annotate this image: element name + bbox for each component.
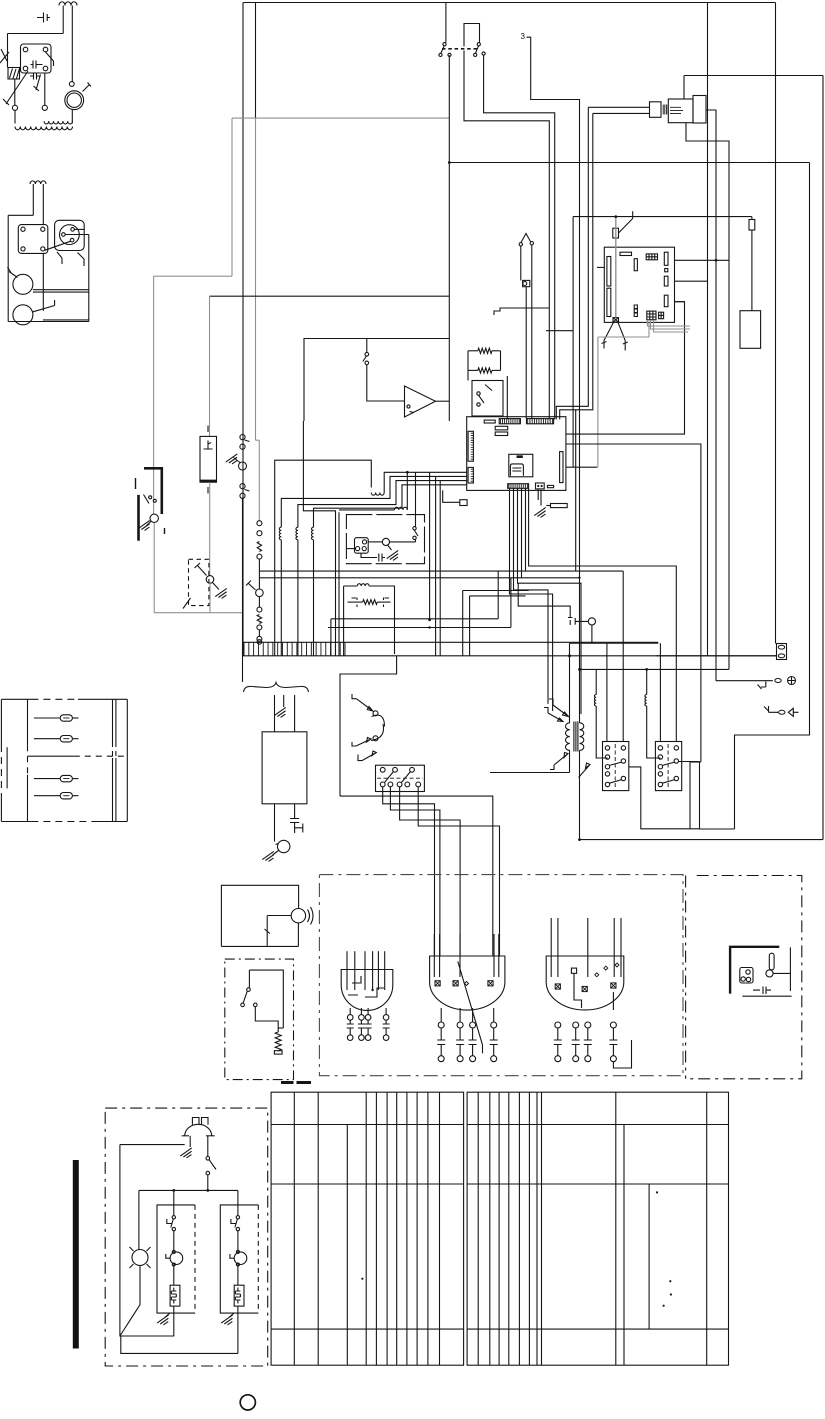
switch lever — [57, 252, 62, 264]
wire — [383, 787, 435, 956]
pin chain — [491, 1056, 497, 1062]
wire — [71, 6, 73, 83]
ground — [180, 1148, 191, 1158]
junction — [578, 668, 581, 671]
contact — [172, 1263, 175, 1266]
pin chain — [438, 1056, 444, 1062]
wire — [340, 656, 397, 796]
tick — [207, 426, 209, 433]
wire — [468, 369, 478, 371]
wire — [400, 787, 461, 956]
cup wiring — [348, 976, 384, 997]
wire — [613, 918, 615, 977]
wire — [237, 1306, 239, 1353]
motor M3 — [13, 305, 33, 325]
resistor element — [235, 1288, 240, 1304]
contact — [362, 540, 366, 544]
wire — [388, 545, 392, 550]
connector cup X3 — [546, 956, 624, 1010]
terminal — [488, 981, 493, 986]
armature — [766, 970, 773, 977]
connector dome — [185, 1124, 212, 1136]
diamond — [604, 966, 608, 970]
contact — [443, 43, 446, 46]
inductor L6 — [312, 527, 314, 540]
capacitor C2 — [30, 73, 40, 80]
resistor cap — [274, 1051, 282, 1054]
contact — [172, 1250, 175, 1253]
relay block U4 — [376, 765, 425, 791]
table column — [293, 1092, 295, 1365]
wire — [570, 642, 659, 644]
base line — [742, 995, 791, 997]
dimmer box (dash-dot) — [225, 959, 294, 1080]
switch lever — [246, 581, 256, 591]
PCB box — [604, 247, 674, 322]
grid lines — [647, 311, 656, 320]
lever — [549, 699, 569, 717]
table row line — [271, 1328, 464, 1330]
contact — [605, 782, 609, 786]
connector teeth — [471, 469, 474, 481]
terminal — [257, 636, 262, 641]
sensor feed — [716, 680, 773, 682]
wire — [120, 1145, 174, 1336]
stub — [472, 1008, 474, 1022]
capacitor pill — [769, 953, 774, 970]
pin chain — [573, 1022, 579, 1028]
relay block K3 — [603, 742, 629, 791]
switch S4 — [521, 234, 531, 243]
pin chain — [383, 1015, 389, 1021]
wire — [258, 630, 260, 637]
fuse element — [63, 778, 69, 780]
junction — [645, 668, 648, 671]
capacitor C1 (points) — [31, 61, 43, 69]
contact — [149, 496, 152, 499]
wire — [338, 512, 340, 656]
wire — [165, 1313, 170, 1317]
PCB grid — [659, 312, 664, 319]
panel rail — [27, 699, 29, 745]
wire — [237, 1265, 239, 1286]
contact — [439, 53, 442, 56]
fuse F2 — [777, 644, 787, 660]
blade — [402, 772, 411, 783]
wire — [283, 695, 285, 707]
wire — [384, 951, 386, 990]
inductor L9 coil — [645, 695, 647, 707]
bus bar — [242, 641, 658, 643]
lamp — [132, 1250, 148, 1266]
contact — [23, 47, 28, 52]
fuse element — [63, 738, 69, 740]
pin chain bars — [358, 1020, 365, 1035]
fuse F — [34, 738, 60, 740]
gray bundle — [648, 320, 691, 326]
switch lever — [46, 52, 54, 66]
contact — [206, 1157, 210, 1161]
field coil (scallops) — [15, 127, 73, 130]
contact — [380, 767, 385, 772]
pin chain — [585, 1022, 591, 1028]
terminal — [453, 981, 458, 986]
wire — [120, 1144, 185, 1146]
wire — [439, 481, 441, 656]
table column — [623, 1125, 625, 1366]
wire — [88, 235, 90, 322]
wire — [255, 118, 257, 440]
wire — [629, 767, 700, 829]
fuse F — [34, 778, 60, 780]
motor M1 — [65, 91, 84, 110]
wire — [462, 591, 464, 656]
fuse cap — [778, 645, 784, 649]
wire — [33, 300, 55, 312]
wire — [518, 488, 582, 714]
table column — [706, 1092, 708, 1365]
fuse lead — [72, 795, 78, 797]
wire — [415, 540, 417, 542]
fuse element — [63, 795, 69, 797]
switch lever — [3, 71, 28, 105]
wire — [207, 1175, 209, 1191]
wire — [492, 350, 501, 352]
ground — [387, 550, 398, 560]
wire — [8, 33, 64, 35]
terminal — [257, 640, 262, 645]
switch blade — [476, 46, 479, 54]
contact — [241, 1003, 245, 1007]
wire — [596, 706, 607, 758]
canister — [740, 311, 761, 349]
wire — [679, 761, 700, 763]
transformer T2 primary — [565, 723, 569, 751]
flasher contact box — [355, 538, 369, 554]
wire — [297, 540, 299, 656]
ground — [221, 1315, 232, 1325]
table column — [406, 1092, 408, 1365]
junction — [206, 1189, 209, 1192]
wire — [735, 163, 810, 830]
wire — [331, 618, 498, 620]
wire — [361, 553, 377, 557]
blade — [235, 1219, 238, 1228]
connector J1 (hatched) — [8, 68, 20, 80]
contact — [621, 776, 625, 780]
wire — [274, 695, 276, 732]
wire — [510, 488, 553, 711]
points — [278, 840, 290, 852]
hook — [230, 1254, 234, 1258]
bus teeth — [244, 642, 345, 656]
wire — [498, 934, 500, 977]
wire — [506, 307, 549, 309]
switch S1 (dashed gang) — [442, 48, 479, 50]
wire — [229, 1313, 234, 1317]
wire — [606, 643, 608, 741]
pin chain bars — [490, 1028, 498, 1056]
contact — [70, 238, 74, 242]
wire — [42, 254, 44, 312]
points cam — [588, 618, 595, 625]
resistor R4 — [348, 601, 363, 603]
pin chain — [555, 1056, 561, 1062]
switch S5 — [413, 527, 416, 530]
stub — [385, 1008, 387, 1015]
wire — [521, 488, 523, 578]
terminal — [12, 105, 17, 110]
pin chain — [438, 1022, 444, 1028]
wire — [573, 216, 752, 218]
pin chain — [365, 1015, 371, 1021]
table frame — [467, 1092, 728, 1365]
wire — [120, 1266, 140, 1337]
inductor L9 — [646, 669, 648, 694]
contact — [482, 52, 485, 55]
contact — [474, 53, 477, 56]
junction — [578, 838, 581, 841]
capacitor C5 — [379, 554, 385, 562]
wire — [207, 1136, 209, 1157]
wire (bus) — [259, 577, 579, 579]
battery bracket (thick) — [137, 495, 140, 541]
center line — [614, 744, 616, 788]
contact — [658, 746, 662, 750]
junction — [406, 471, 409, 474]
table row line — [467, 1328, 728, 1330]
contact — [397, 782, 402, 787]
wire — [406, 472, 408, 510]
thick edge — [200, 480, 218, 482]
bottom wire — [121, 1336, 238, 1353]
resistor R1 — [478, 348, 492, 353]
wire — [280, 540, 282, 656]
strip teeth — [509, 484, 528, 489]
pin chain bars — [456, 1028, 464, 1056]
stub — [493, 1008, 495, 1022]
table column — [536, 1092, 538, 1365]
igniter — [613, 228, 619, 238]
component — [523, 280, 530, 286]
wire — [276, 844, 279, 845]
wire — [62, 6, 64, 34]
pin chain bars — [554, 1028, 562, 1056]
contact — [741, 977, 745, 981]
junction — [568, 654, 571, 657]
fuse body — [60, 736, 72, 742]
wire — [448, 339, 450, 422]
resistor wire — [257, 542, 261, 552]
bracket — [764, 706, 778, 712]
wire — [686, 123, 729, 670]
lamp unit box — [344, 586, 395, 656]
junction — [371, 989, 373, 991]
wire — [256, 439, 260, 441]
inductor L8 coil — [594, 695, 596, 707]
amplifier box — [304, 339, 449, 422]
switch blade — [363, 356, 367, 362]
contact — [41, 227, 45, 231]
aux box (dash-dot) — [686, 876, 802, 1079]
horn box — [221, 885, 298, 946]
blade — [385, 772, 394, 783]
contact — [621, 746, 625, 750]
connector cup X1 — [341, 970, 393, 1011]
gray bundle — [654, 320, 689, 332]
wire — [556, 107, 588, 419]
table dot — [669, 1280, 671, 1282]
component — [495, 432, 508, 436]
contact — [674, 746, 678, 750]
breaker arc — [371, 724, 384, 741]
PCB grid — [647, 311, 656, 320]
terminal — [69, 82, 74, 87]
PCB grid — [646, 254, 657, 260]
wire — [775, 3, 777, 644]
wire — [209, 296, 211, 436]
terminal strip — [527, 419, 554, 424]
diamond — [465, 982, 469, 986]
transformer core — [574, 722, 578, 752]
fuse element — [204, 441, 213, 450]
flasher box (dashed) — [346, 515, 424, 564]
pin chain bars — [365, 1020, 372, 1035]
wire — [221, 945, 298, 947]
resistor wire — [257, 615, 261, 624]
horn H1 — [291, 909, 305, 923]
wire — [448, 55, 450, 338]
tick — [207, 487, 209, 494]
stub — [367, 1008, 369, 1015]
IC pins — [512, 468, 521, 471]
ground — [157, 1315, 168, 1325]
wire — [467, 351, 469, 381]
wire — [237, 1231, 239, 1252]
PCB rect — [664, 252, 668, 265]
inductor L8 — [595, 669, 597, 694]
junction — [614, 215, 617, 218]
PCB bar — [607, 257, 611, 287]
wire (main feed) — [449, 162, 809, 164]
table mark (thick) — [281, 1081, 294, 1084]
table dot — [656, 1191, 658, 1193]
contact — [658, 765, 662, 769]
stub — [440, 1008, 442, 1022]
relay box (dashed) — [189, 559, 209, 605]
inductor L10 — [357, 584, 369, 586]
connector hatch — [663, 105, 668, 115]
wire — [439, 934, 441, 977]
contact — [605, 746, 609, 750]
wire — [500, 351, 502, 371]
junction — [428, 626, 430, 628]
inductor L7 — [395, 507, 408, 510]
wire — [822, 76, 824, 840]
relay K1 — [21, 44, 52, 73]
wire — [232, 117, 449, 119]
wire — [173, 1306, 175, 1336]
wire — [683, 76, 685, 100]
tick — [245, 490, 250, 492]
fusible link — [256, 589, 264, 597]
IC U3 — [510, 464, 523, 476]
cup wire — [574, 973, 582, 1008]
resistor block — [170, 1285, 180, 1306]
contact — [605, 755, 609, 759]
center line — [667, 744, 669, 788]
wire — [390, 787, 440, 956]
contact — [605, 765, 609, 769]
marker bar (thick) — [73, 1160, 79, 1349]
wire — [531, 245, 533, 419]
terminal oval — [779, 710, 785, 714]
wire — [65, 234, 89, 236]
wire — [470, 595, 526, 597]
wire — [242, 3, 244, 656]
terminal — [240, 435, 245, 440]
pin chain bars — [572, 1028, 580, 1056]
sensor connector — [613, 318, 619, 322]
sender G1 — [788, 677, 796, 685]
contact — [236, 1250, 239, 1253]
wire — [372, 951, 374, 990]
lever — [579, 763, 591, 778]
cup bend wire — [613, 992, 631, 1068]
wire — [550, 918, 552, 977]
harness box (dash-dot) — [319, 875, 683, 1076]
pcb feed — [597, 266, 604, 268]
wire — [173, 1265, 175, 1286]
wire — [518, 583, 570, 617]
terminal — [523, 282, 527, 286]
regulator box — [472, 381, 503, 417]
wire — [71, 110, 73, 124]
tick — [135, 478, 137, 489]
pin chain bars — [584, 1028, 592, 1056]
tick — [265, 929, 271, 934]
wire — [510, 578, 512, 628]
wire — [597, 337, 599, 467]
wire — [210, 295, 450, 297]
wing wire — [618, 322, 625, 350]
fusible link — [239, 462, 247, 470]
wire — [579, 750, 581, 839]
wire — [647, 706, 661, 758]
wire — [346, 548, 354, 550]
blade — [662, 762, 675, 766]
wire — [415, 472, 417, 526]
connector — [460, 500, 467, 506]
wire — [497, 571, 499, 619]
panel divider — [28, 755, 74, 757]
wire — [435, 476, 437, 655]
table frame — [271, 1092, 464, 1365]
pin — [541, 485, 543, 487]
connector P1 plug — [650, 102, 662, 118]
distributor housing — [55, 220, 85, 250]
module box — [467, 417, 566, 491]
panel rail — [112, 699, 114, 742]
wire — [154, 275, 232, 277]
motor — [170, 1252, 183, 1265]
pin chain — [457, 1022, 463, 1028]
resistor block — [234, 1285, 244, 1306]
pin chain — [573, 1056, 579, 1062]
wire — [173, 1190, 175, 1215]
wire — [433, 934, 435, 977]
component U-link — [464, 24, 480, 47]
